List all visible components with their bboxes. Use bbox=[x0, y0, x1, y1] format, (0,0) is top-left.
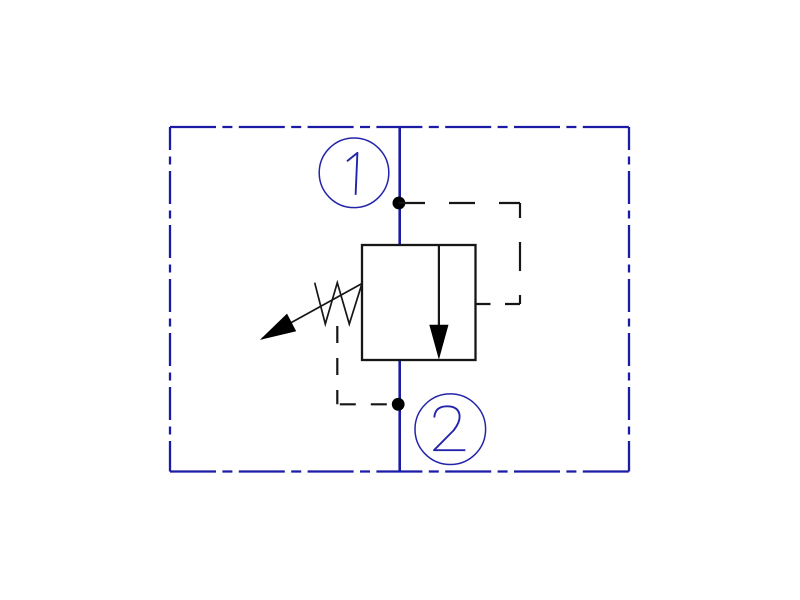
valve body square bbox=[362, 245, 476, 360]
flow arrow inside valve: arrowhead pointing down bbox=[429, 325, 448, 360]
enclosure border left edge (blue dash-dot) bbox=[169, 127, 171, 472]
enclosure border top edge (blue dash-dot) bbox=[170, 126, 629, 128]
junction dot at port 1 node bbox=[393, 197, 406, 210]
pilot line (dashed) from port 1 node, horizontal segment bbox=[399, 202, 520, 204]
pilot/drain line (dashed) horizontal segment to port 2 node bbox=[337, 403, 398, 405]
main flow line from port 1 to port 2 (blue wire) bbox=[398, 127, 401, 472]
pilot line (dashed) horizontal segment into valve right side bbox=[476, 303, 521, 305]
port 2 digit "2" bbox=[434, 406, 465, 450]
port 1 label circle bbox=[319, 138, 389, 208]
pilot/drain line (dashed) from spring chamber down, vertical segment bbox=[336, 326, 338, 404]
flow arrow inside valve: shaft bbox=[438, 245, 440, 332]
junction dot at port 2 node bbox=[392, 398, 405, 411]
enclosure border bottom edge (blue dash-dot) bbox=[170, 470, 629, 472]
adjustment arrow shaft through spring bbox=[262, 284, 362, 339]
port 1 digit "1" bbox=[347, 153, 357, 195]
adjustable spring (zigzag) on valve left side bbox=[315, 283, 362, 324]
adjustment arrowhead pointing lower-left bbox=[260, 314, 296, 340]
enclosure border right edge (blue dash-dot) bbox=[628, 127, 630, 472]
pilot line (dashed) vertical segment on right bbox=[519, 203, 521, 304]
port 2 label circle bbox=[415, 394, 486, 465]
